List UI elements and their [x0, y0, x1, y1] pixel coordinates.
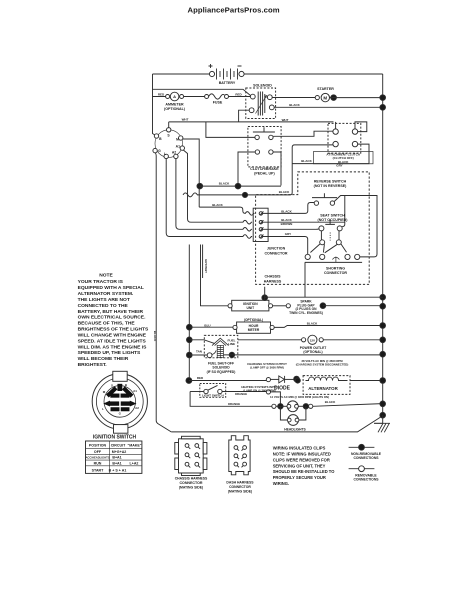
svg-text:WHT: WHT [282, 118, 289, 122]
svg-text:(NOT OCCUPIED): (NOT OCCUPIED) [318, 218, 349, 222]
svg-text:SPEEDED UP, THE LIGHTS: SPEEDED UP, THE LIGHTS [78, 350, 141, 356]
solenoid K1 box [246, 88, 276, 119]
node dash bus tan junction [187, 352, 193, 358]
svg-text:BLACK: BLACK [301, 159, 312, 163]
svg-text:CONNECTIONS: CONNECTIONS [353, 456, 379, 460]
wire hour meter to bus black [274, 326, 383, 328]
wire junction connector pin1 out black [263, 202, 315, 213]
svg-text:M+G+A2: M+G+A2 [112, 450, 127, 454]
svg-text:(IF SO EQUIPPED): (IF SO EQUIPPED) [207, 370, 236, 374]
wire 12V outlet row left [238, 339, 302, 341]
svg-text:CONNECTIONS: CONNECTIONS [353, 478, 379, 482]
chassis harness connector body [175, 436, 207, 475]
node bus-solenoid junction [380, 105, 386, 111]
node fuel row junction [229, 352, 234, 357]
svg-text:ACC/HEADLIGHTS: ACC/HEADLIGHTS [85, 456, 109, 460]
ignition switch bottom tab [114, 425, 128, 434]
wire clutch-brake lower-left to row A [238, 152, 255, 184]
svg-text:HEADLIGHTS: HEADLIGHTS [284, 428, 306, 432]
ignition switch table text [85, 443, 141, 472]
wire battery positive to left drop [153, 73, 210, 75]
chassis harness dashed boundary [256, 172, 370, 285]
node bus lamp junction [380, 401, 386, 407]
svg-text:NOTE: IF WIRING INSULATED: NOTE: IF WIRING INSULATED [273, 452, 331, 457]
svg-text:CONNECTOR: CONNECTOR [264, 252, 287, 256]
svg-text:TAN: TAN [196, 350, 202, 354]
svg-text:JUNCTION: JUNCTION [267, 247, 286, 251]
wire battery branch rail to solenoid [153, 89, 251, 95]
wire light switch to headlights [222, 391, 266, 393]
svg-text:OFF: OFF [94, 450, 102, 454]
svg-text:WILL DIM. AS THE ENGINE IS: WILL DIM. AS THE ENGINE IS [78, 344, 147, 350]
wire attachment clutch lower-right gray to chassis box [292, 144, 369, 164]
wire lamp1 to bus [313, 404, 383, 407]
wire ammeter to fuse [153, 96, 205, 98]
svg-text:B+A1: B+A1 [112, 462, 121, 466]
svg-text:(OPTIONAL): (OPTIONAL) [244, 318, 263, 322]
ignition switch key guide circle [104, 386, 136, 418]
svg-text:STARTER: STARTER [317, 87, 334, 91]
hour meter U2 box [237, 322, 271, 333]
fuse F1 [205, 94, 229, 99]
clutch-brake terminals [255, 135, 273, 154]
node dash bus blue junction [187, 324, 193, 330]
svg-text:HOUR: HOUR [249, 324, 259, 328]
headlight circuit terminal [266, 390, 270, 394]
wire solenoid lower-right terminal to right bus [274, 106, 383, 108]
node row A brake junction [235, 183, 241, 189]
wire fuel row to bus [224, 354, 383, 356]
svg-text:CIRCUIT: CIRCUIT [111, 443, 126, 447]
svg-text:DASH HARNESS: DASH HARNESS [226, 481, 254, 485]
wire lower feed to headlights [190, 392, 272, 407]
wire blue to hour meter [189, 326, 233, 328]
fuel solenoid terminal [207, 353, 212, 358]
svg-text:BLACK: BLACK [281, 209, 292, 213]
wire starter to right bus [330, 97, 383, 99]
svg-text:YOUR TRACTOR IS: YOUR TRACTOR IS [78, 279, 124, 285]
svg-text:BROWN: BROWN [281, 222, 293, 226]
seat switch SW5 [319, 220, 342, 231]
headlight lamp 2 [287, 415, 299, 426]
wire shorting connector to engine row [304, 262, 306, 297]
svg-text:RED: RED [197, 376, 204, 380]
node bus ground junction [380, 412, 386, 418]
wire coil feed into fuel box [189, 340, 215, 344]
node dash bus 12V junction [187, 337, 193, 343]
ignition switch key slots [105, 384, 136, 411]
svg-text:A1: A1 [176, 145, 180, 149]
svg-text:SPEED. AT IDLE THE LIGHTS: SPEED. AT IDLE THE LIGHTS [78, 338, 147, 344]
wire solenoid lower-left terminal to WHT rail [239, 110, 250, 122]
headlight output terminal [309, 404, 313, 408]
svg-text:(MATING SIDE): (MATING SIDE) [179, 485, 203, 489]
svg-text:(NOT IN REVERSE): (NOT IN REVERSE) [314, 184, 348, 188]
note block [78, 273, 149, 369]
svg-text:WILL BECOME THEIR: WILL BECOME THEIR [78, 356, 129, 362]
wire 12V outlet to bus [323, 339, 382, 341]
wire row B black to reverse switch [183, 145, 333, 197]
node headlight right junction [303, 404, 308, 409]
solenoid terminals [249, 94, 274, 112]
node bus alternator junction [380, 378, 386, 384]
node row B junction [242, 192, 247, 197]
wire chassis harness drop GRY-WHT [202, 245, 204, 279]
wire headlight left link [276, 405, 289, 407]
svg-text:SERVICING OF UNIT, THEY: SERVICING OF UNIT, THEY [273, 463, 326, 468]
legend non-removable symbol [349, 444, 375, 450]
ground symbol chassis [374, 415, 390, 432]
attachment clutch terminals [333, 129, 358, 147]
power outlet 12V [302, 335, 324, 344]
svg-text:POSITION: POSITION [89, 443, 107, 447]
svg-text:OWN ELECTRICAL SOURCE.: OWN ELECTRICAL SOURCE. [78, 315, 146, 321]
svg-text:G: G [158, 149, 161, 153]
svg-text:M: M [323, 96, 327, 101]
svg-text:BATTERY: BATTERY [219, 81, 236, 85]
junction connector pins [259, 211, 263, 238]
wire lamp2 parallel loop left [280, 406, 287, 420]
wire headlight right link [298, 405, 308, 407]
wire gray from junction connector to shorting connector [263, 237, 308, 255]
starter motor M1 [315, 93, 329, 101]
svg-text:BLU: BLU [204, 323, 210, 327]
wire reverse switch right to seat switch right [334, 196, 377, 257]
svg-text:BLACK: BLACK [325, 400, 336, 404]
wire ignition A2 down to junction connector [176, 159, 252, 232]
wire row A black [199, 185, 281, 187]
svg-text:L: L [102, 407, 104, 411]
wire attachment clutch upper-right loop [355, 122, 367, 132]
wire diode to alternator [297, 379, 301, 382]
headlight lamp 1 [287, 401, 298, 412]
ignition face terminal letters [102, 383, 139, 416]
node bus 12V junction [380, 337, 386, 343]
svg-text:L+A2: L+A2 [130, 462, 139, 466]
wiring clips note [273, 446, 336, 486]
svg-text:SHOULD BE RE-INSTALLED TO: SHOULD BE RE-INSTALLED TO [273, 469, 336, 474]
svg-text:RED: RED [235, 92, 242, 96]
svg-text:FUSE: FUSE [213, 101, 223, 105]
svg-text:TWIN CYL. ENGINES): TWIN CYL. ENGINES) [289, 311, 323, 315]
svg-text:"MAKE": "MAKE" [128, 443, 142, 447]
wire spark plug to bus [323, 305, 383, 307]
svg-text:ALTERNATOR: ALTERNATOR [308, 386, 338, 391]
light switch contacts [204, 385, 222, 393]
svg-text:B: B [125, 383, 128, 387]
dash harness connector pins [234, 446, 247, 468]
node starter output [331, 95, 337, 101]
svg-text:ORANGE: ORANGE [235, 392, 247, 396]
svg-text:B: B [159, 137, 162, 141]
svg-text:B+A1: B+A1 [112, 456, 121, 460]
reverse switch SW4 [312, 193, 337, 205]
fuel solenoid chevron [212, 338, 229, 345]
node bus-starter junction [380, 95, 386, 101]
ignition switch top tab [113, 371, 127, 381]
svg-text:BLACK: BLACK [219, 182, 230, 186]
svg-text:ORANGE: ORANGE [228, 402, 240, 406]
wire headlight feed drop [271, 392, 281, 404]
node headlight left junction [278, 404, 283, 409]
svg-text:BLACK: BLACK [153, 331, 157, 342]
svg-text:RUN: RUN [94, 462, 102, 466]
svg-text:METER: METER [248, 328, 260, 332]
svg-text:BLACK: BLACK [307, 321, 318, 325]
svg-text:A1: A1 [133, 389, 137, 393]
wire ignition A1 down to junction connector [183, 150, 252, 224]
svg-text:SEAT SWITCH: SEAT SWITCH [320, 214, 345, 218]
wire WHT drop to ignition switch S [168, 122, 170, 128]
ignition unit U1 box [232, 300, 269, 311]
wire seat switch left from junction connector [263, 222, 345, 229]
svg-text:DIODE: DIODE [274, 386, 291, 392]
ignition switch SW1 symbol [155, 130, 183, 158]
svg-text:CONNECTOR: CONNECTOR [179, 481, 202, 485]
wire fuse to solenoid [229, 96, 251, 98]
ignition switch table lines [86, 441, 142, 473]
svg-text:REVERSE SWITCH: REVERSE SWITCH [314, 179, 347, 183]
svg-text:BLACK: BLACK [289, 103, 300, 107]
junction connector J1 box [253, 208, 268, 241]
svg-text:CONNECTOR: CONNECTOR [229, 485, 251, 489]
svg-text:M: M [176, 138, 179, 142]
wire ignition unit to spark plug [273, 305, 287, 307]
diode D1 [279, 376, 294, 383]
chassis harness connector pins [185, 444, 200, 468]
dash harness connector body [229, 436, 250, 475]
svg-text:S: S [167, 134, 170, 138]
svg-text:HARNESS: HARNESS [264, 280, 282, 284]
diode D1 input terminal [266, 378, 270, 382]
ignition switch face plate inner ring [96, 378, 143, 425]
node spark plug output [320, 303, 326, 309]
svg-text:CHASSIS HARNESS: CHASSIS HARNESS [175, 477, 208, 481]
svg-text:A2: A2 [172, 151, 176, 155]
clutch-brake switch SW2 box [248, 127, 281, 167]
node ignition unit top feed [262, 295, 268, 301]
node row A ignition M junction [197, 183, 203, 189]
node bus hour meter junction [380, 323, 386, 329]
svg-text:CLIPS WERE REMOVED FOR: CLIPS WERE REMOVED FOR [273, 457, 330, 462]
wire ignition M to row A [183, 139, 199, 207]
attachment clutch label frame [314, 152, 374, 164]
svg-text:PROPERLY SECURE YOUR: PROPERLY SECURE YOUR [273, 475, 326, 480]
svg-text:M: M [103, 390, 106, 394]
svg-text:L: L [164, 152, 166, 156]
alternator G1 box [303, 376, 350, 395]
attachment clutch switch SW3 box [328, 123, 361, 153]
ignition switch face plate outer ring [92, 374, 147, 429]
svg-text:(LAMP OFF @ 3600 RPM): (LAMP OFF @ 3600 RPM) [250, 366, 284, 370]
svg-text:LINE: LINE [228, 342, 235, 346]
node bus spark junction [380, 303, 386, 309]
svg-text:(LAMP ON @ 3600 RPM): (LAMP ON @ 3600 RPM) [243, 388, 275, 392]
wire clutch-brake upper-right to attachment clutch [273, 131, 333, 136]
svg-text:NOTE: NOTE [99, 273, 113, 279]
svg-text:(CHARGING SYSTEM DISCONNECTED): (CHARGING SYSTEM DISCONNECTED) [296, 362, 349, 366]
svg-text:CONNECTOR: CONNECTOR [324, 271, 347, 275]
svg-text:REMOVABLE: REMOVABLE [355, 473, 377, 477]
svg-text:(OPTIONAL): (OPTIONAL) [164, 107, 186, 111]
svg-text:A: A [173, 94, 176, 99]
node alternator input [295, 378, 300, 383]
svg-text:BRIGHTEST.: BRIGHTEST. [78, 362, 108, 368]
light switch SW6 box [200, 384, 226, 398]
headlight input terminal [272, 404, 276, 408]
wire left vertical battery feed to ignition switch B [153, 74, 157, 136]
svg-text:B + S + A1: B + S + A1 [109, 468, 127, 472]
svg-text:BLACK: BLACK [212, 203, 223, 207]
svg-text:GRY/WHT: GRY/WHT [204, 259, 208, 273]
ignition switch terminal letters [158, 134, 180, 156]
wire junction connector to ignition unit [201, 245, 229, 306]
ignition switch table box [86, 441, 142, 473]
svg-text:SOLENOID: SOLENOID [253, 84, 272, 88]
svg-text:CONNECTED TO THE: CONNECTED TO THE [78, 303, 129, 309]
wire alternator to bus [350, 380, 383, 382]
svg-text:A2: A2 [135, 406, 139, 410]
svg-text:CHASSIS: CHASSIS [265, 275, 282, 279]
right bus vertical [382, 74, 384, 415]
ammeter A1 (optional) [166, 92, 184, 101]
svg-text:G: G [119, 412, 122, 416]
wire WHT branch down to clutch-brake switch [206, 122, 255, 137]
svg-text:NON-REMOVABLE: NON-REMOVABLE [351, 452, 382, 456]
svg-text:WILL CHANGE WITH ENGINE: WILL CHANGE WITH ENGINE [78, 333, 147, 339]
wire battery negative to right bus [244, 73, 383, 75]
svg-text:IGNITION SWITCH: IGNITION SWITCH [93, 435, 137, 441]
wire headlight return long line [171, 417, 381, 432]
node bus engine row [380, 294, 386, 300]
node bus fuel junction [380, 351, 386, 357]
node diode output [294, 376, 300, 382]
svg-text:LIGHT SWITCH: LIGHT SWITCH [202, 394, 224, 398]
wire tan to fuel solenoid [189, 354, 207, 356]
hour meter terminals [233, 325, 274, 329]
wire solenoid upper-right to starter [272, 97, 315, 99]
battery BT1 [209, 64, 245, 80]
svg-text:(OPTIONAL): (OPTIONAL) [303, 350, 322, 354]
svg-text:ALTERNATOR SYSTEM.: ALTERNATOR SYSTEM. [78, 291, 134, 297]
svg-text:AppliancePartsPros.com: AppliancePartsPros.com [188, 6, 280, 15]
wire ignition unit top feed [265, 287, 383, 301]
svg-text:GRY: GRY [336, 164, 342, 168]
svg-text:S: S [111, 384, 113, 388]
svg-text:WIRING.: WIRING. [273, 481, 289, 486]
wire ignition L down to junction connector [166, 159, 252, 239]
svg-text:EQUIPPED WITH A SPECIAL: EQUIPPED WITH A SPECIAL [78, 285, 144, 291]
spark plug terminal [286, 304, 290, 308]
clutch-brake actuator bar [253, 127, 275, 132]
svg-text:BECAUSE OF THIS, THE: BECAUSE OF THIS, THE [78, 321, 136, 327]
svg-text:BATTERY, BUT HAVE THEIR: BATTERY, BUT HAVE THEIR [78, 309, 144, 315]
wire diode input [271, 378, 279, 380]
svg-text:RED: RED [158, 93, 165, 97]
svg-text:(MATING SIDE): (MATING SIDE) [228, 489, 252, 493]
svg-text:WIRING INSULATED CLIPS: WIRING INSULATED CLIPS [273, 446, 326, 451]
shorting connector plug [305, 231, 362, 263]
ignition unit terminals [228, 304, 273, 308]
svg-text:SHORTING: SHORTING [326, 267, 345, 271]
wire attachment clutch upper-left stub to WHT rail [335, 122, 337, 129]
wire junction connector to dash bus [188, 245, 190, 381]
wire row C black to junction connector pin1 [199, 207, 254, 215]
svg-text:THE LIGHTS ARE NOT: THE LIGHTS ARE NOT [78, 297, 130, 303]
solenoid coil [256, 92, 267, 116]
fuel solenoid valve body hatched [217, 345, 223, 357]
svg-text:UNIT: UNIT [246, 306, 254, 310]
svg-text:BRIGHTNESS OF THE LIGHTS: BRIGHTNESS OF THE LIGHTS [78, 327, 149, 333]
wire ignition G down chassis return [155, 153, 171, 432]
svg-text:12V: 12V [310, 338, 315, 342]
wire lamp2 parallel loop right [299, 406, 306, 420]
node dash bus red junction [186, 378, 192, 384]
legend removable symbol [349, 466, 375, 472]
wire light switch feed [190, 391, 204, 393]
fuel solenoid hook [212, 350, 216, 354]
fuel shut-off solenoid box [204, 335, 238, 357]
label spark plug [289, 300, 323, 315]
svg-text:BLACK: BLACK [279, 190, 290, 194]
svg-text:WHT: WHT [182, 118, 189, 122]
wire clutch-brake lower-right to attachment clutch lower-left [273, 152, 281, 186]
wire WHT rail [169, 121, 334, 123]
svg-text:GRY: GRY [285, 232, 291, 236]
svg-text:(PEDAL UP): (PEDAL UP) [254, 171, 275, 175]
svg-text:START: START [92, 468, 105, 472]
wire red row to diode [189, 380, 266, 382]
alternator coil [306, 377, 348, 380]
svg-text:14 VOLTS AC MIN @ 3600 RPM (LI: 14 VOLTS AC MIN @ 3600 RPM (LIGHTS ON) [270, 395, 329, 399]
